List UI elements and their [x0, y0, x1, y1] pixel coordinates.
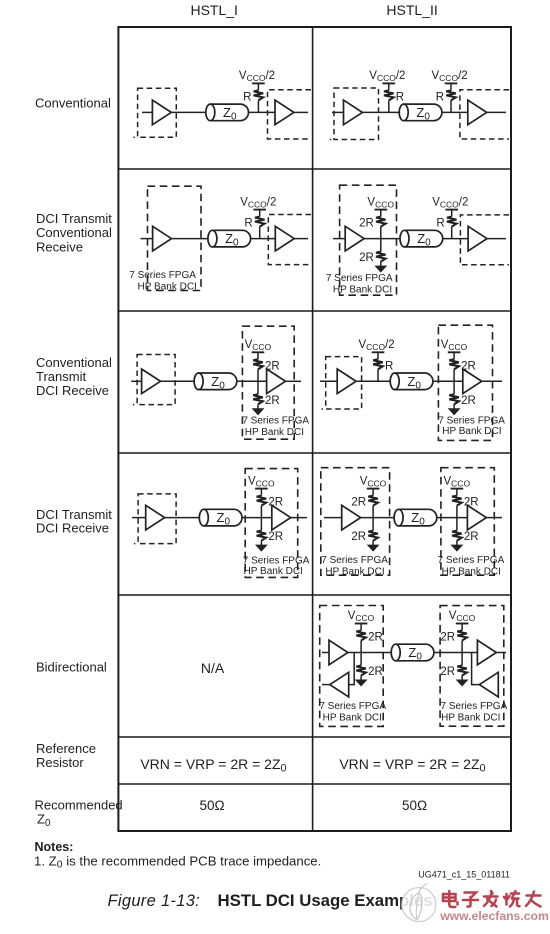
- svg-text:HSTL DCI Usage Examples: HSTL DCI Usage Examples: [218, 891, 433, 910]
- svg-text:7 Series FPGA: 7 Series FPGA: [438, 555, 505, 566]
- power rail VCCO bar: [445, 209, 458, 211]
- svg-text:VCCO/2: VCCO/2: [432, 196, 468, 209]
- DCI driver dashed box 7 Series FPGA HP Bank DCI (HSTL_I row2): [148, 186, 202, 290]
- resistor 2R pull-up to VCCO: [351, 489, 378, 518]
- row label Reference Resistor: [36, 741, 96, 770]
- receiver dashed box (conventional RX, HSTL_II row1): [460, 90, 509, 139]
- wire TX input stub: [322, 652, 329, 654]
- wire RX output stub: [486, 517, 502, 519]
- wire receiver branch (left transceiver): [349, 653, 355, 685]
- svg-text:HP Bank DCI: HP Bank DCI: [138, 282, 197, 293]
- svg-text:Z0: Z0: [37, 812, 51, 830]
- buffer U4 receiver: [468, 100, 487, 125]
- wire TX input stub: [332, 111, 344, 113]
- svg-text:VCCO: VCCO: [449, 610, 476, 623]
- svg-text:HP Bank DCI: HP Bank DCI: [245, 427, 304, 438]
- buffer U14 DCI receiver: [272, 505, 291, 530]
- svg-text:7 Series FPGA: 7 Series FPGA: [441, 701, 508, 712]
- svg-text:VCCO: VCCO: [348, 610, 375, 623]
- receiver dashed box (conventional RX, HSTL_I row2): [268, 215, 311, 265]
- svg-text:VRN = VRP = 2R = 2Z0: VRN = VRP = 2R = 2Z0: [140, 756, 286, 775]
- receiver dashed box (conventional RX, HSTL_II row2): [460, 215, 509, 265]
- wire line to receiver, node at R termination: [249, 111, 276, 113]
- svg-text:VCCO: VCCO: [441, 339, 468, 352]
- power rail VCCO bar: [255, 488, 268, 490]
- buffer U17 bidirectional driver (left): [329, 640, 348, 665]
- power rail VCCO bar: [252, 351, 265, 353]
- table row line y=737: [118, 736, 511, 738]
- ground: [356, 680, 367, 686]
- svg-text:R: R: [385, 360, 393, 372]
- wire driver branch (right transceiver): [472, 653, 480, 685]
- buffer U15 DCI transmit driver: [342, 505, 361, 530]
- svg-text:VCCO: VCCO: [360, 475, 387, 488]
- svg-text:2R: 2R: [359, 218, 374, 230]
- svg-text:7 Series FPGA: 7 Series FPGA: [242, 416, 309, 427]
- transmission line Z0: [206, 104, 249, 122]
- resistor 2R pull-up to VCCO: [449, 352, 476, 381]
- transmission line Z0: [394, 509, 437, 527]
- svg-text:Resistor: Resistor: [36, 755, 84, 770]
- label 7 Series FPGA HP Bank DCI: [441, 701, 508, 723]
- label 7 Series FPGA HP Bank DCI: [129, 270, 197, 293]
- label 7 Series FPGA HP Bank DCI: [438, 555, 505, 577]
- power rail VCCO bar: [367, 488, 380, 490]
- wire line to receiver, node at DCI split termination: [237, 380, 267, 382]
- driver dashed box (conventional TX, HSTL_II row1): [330, 88, 379, 140]
- watermark logo circle: [402, 884, 436, 922]
- wire TX to transmission line: [171, 111, 206, 113]
- svg-text:Conventional: Conventional: [36, 355, 112, 370]
- ground: [376, 266, 387, 272]
- DCI driver dashed box 7 Series FPGA HP Bank DCI (HSTL_II row2): [340, 185, 397, 295]
- svg-text:VCCO: VCCO: [367, 196, 394, 209]
- row label DCI Transmit DCI Receive: [36, 507, 112, 536]
- svg-text:DCI Receive: DCI Receive: [36, 383, 109, 398]
- wire line to receiver, node at far-end R: [442, 111, 468, 113]
- driver dashed box (conventional TX, HSTL_I row3): [133, 355, 175, 405]
- svg-text:7 Series FPGA: 7 Series FPGA: [243, 556, 310, 567]
- svg-text:HP Bank DCI: HP Bank DCI: [333, 284, 392, 295]
- table column divider: [312, 27, 314, 831]
- driver dashed box (conventional TX, HSTL_II row3): [322, 357, 362, 409]
- label 7 Series FPGA HP Bank DCI: [326, 273, 393, 295]
- transmission line Z0: [194, 373, 237, 391]
- buffer U13 transmit driver: [146, 505, 165, 530]
- wire RX output stub: [487, 111, 506, 113]
- svg-text:VCCO: VCCO: [444, 475, 471, 488]
- svg-text:VRN = VRP = 2R = 2Z0: VRN = VRP = 2R = 2Z0: [339, 756, 485, 775]
- resistor 2R pull-up to VCCO: [257, 489, 284, 518]
- power rail VCCO bar: [372, 351, 385, 353]
- wire TX input stub: [333, 238, 345, 240]
- table row line y=453: [118, 452, 511, 454]
- resistor 2R pull-up to VCCO: [440, 624, 467, 653]
- wire RX output stub (left): [322, 684, 330, 686]
- resistor 2R pull-up to VCCO: [359, 210, 386, 239]
- buffer U9 transmit driver: [142, 369, 161, 394]
- svg-text:DCI Receive: DCI Receive: [36, 521, 109, 536]
- buffer U16 DCI receiver: [467, 505, 486, 530]
- svg-text:50Ω: 50Ω: [199, 798, 224, 813]
- resistor 2R to ground: [356, 653, 383, 681]
- svg-text:50Ω: 50Ω: [402, 798, 427, 813]
- svg-text:2R: 2R: [440, 632, 455, 644]
- buffer U6 receiver: [275, 226, 294, 251]
- svg-text:Conventional: Conventional: [36, 225, 112, 240]
- ground: [368, 545, 379, 551]
- transmission line Z0: [390, 373, 433, 391]
- row label Recommended Z0: [35, 797, 123, 829]
- svg-text:HP Bank DCI: HP Bank DCI: [323, 713, 382, 724]
- table outer border: [118, 27, 511, 831]
- wire TX to transmission line, node at split termination: [364, 238, 400, 240]
- wire RX output stub (right): [496, 652, 506, 654]
- row label Conventional Transmit DCI Receive: [36, 355, 112, 398]
- ground: [452, 545, 463, 551]
- wire TX to transmission line, node at source R: [356, 380, 390, 382]
- resistor 2R to ground: [253, 381, 280, 409]
- DCI receiver dashed box 7 Series FPGA HP Bank DCI (HSTL_II row3): [438, 325, 492, 440]
- DCI driver dashed box 7 Series FPGA HP Bank DCI (HSTL_II row4 left): [321, 468, 390, 576]
- ground: [449, 409, 460, 415]
- DCI receiver dashed box 7 Series FPGA HP Bank DCI (HSTL_II row4 right): [441, 468, 494, 576]
- buffer U2 receiver: [275, 100, 294, 125]
- label 7 Series FPGA HP Bank DCI: [242, 416, 309, 438]
- svg-text:VCCO/2: VCCO/2: [359, 339, 395, 352]
- wire driver to transmission line, node at split termination: [348, 652, 391, 654]
- label 7 Series FPGA HP Bank DCI: [243, 556, 310, 577]
- resistor R far-end pull-up to VCCO/2: [436, 83, 456, 112]
- label 7 Series FPGA HP Bank DCI: [319, 701, 386, 723]
- svg-text:Figure 1-13:: Figure 1-13:: [108, 892, 201, 910]
- ground: [253, 409, 264, 415]
- power rail VCCO bar: [253, 209, 266, 211]
- buffer U7 DCI transmit driver: [345, 226, 364, 251]
- wire line to right transceiver, node at split termination: [434, 652, 478, 654]
- buffer U10 DCI receiver: [267, 369, 286, 394]
- resistor 2R pull-up to VCCO: [356, 624, 383, 653]
- svg-text:Conventional: Conventional: [35, 96, 111, 111]
- wire line to receiver, node at DCI split termination: [242, 517, 272, 519]
- resistor 2R to ground: [440, 653, 467, 681]
- svg-text:R: R: [396, 91, 404, 103]
- buffer U11 transmit driver: [337, 369, 356, 394]
- wire TX input stub: [132, 517, 146, 519]
- svg-text:DCI Transmit: DCI Transmit: [36, 507, 112, 522]
- svg-text:DCI Transmit: DCI Transmit: [36, 211, 112, 226]
- svg-text:7 Series FPGA: 7 Series FPGA: [326, 273, 393, 284]
- svg-text:2R: 2R: [268, 531, 283, 543]
- wire TX input stub: [141, 238, 153, 240]
- wire TX to transmission line, node at split termination: [361, 517, 395, 519]
- svg-text:2R: 2R: [461, 395, 476, 407]
- svg-text:2R: 2R: [440, 666, 455, 678]
- resistor R pull-up to VCCO/2: [243, 83, 263, 112]
- wire line to receiver, node at DCI split termination: [437, 517, 468, 519]
- buffer U19 bidirectional receiver (right): [477, 640, 496, 665]
- resistor 2R to ground: [257, 518, 284, 546]
- label 7 Series FPGA HP Bank DCI: [321, 555, 388, 577]
- svg-text:2R: 2R: [368, 632, 383, 644]
- transmission line Z0: [391, 644, 434, 662]
- power rail VCCO bar: [445, 82, 458, 84]
- svg-text:7 Series FPGA: 7 Series FPGA: [321, 555, 388, 566]
- svg-text:2R: 2R: [368, 666, 383, 678]
- wire RX output stub: [294, 111, 308, 113]
- DCI receiver dashed box 7 Series FPGA HP Bank DCI (HSTL_I row3): [242, 326, 294, 439]
- svg-text:N/A: N/A: [201, 660, 225, 676]
- buffer U1 transmit driver: [152, 100, 171, 125]
- buffer U20 bidirectional driver (right): [479, 672, 498, 697]
- power rail VCCO bar: [448, 351, 461, 353]
- table row line y=169: [118, 168, 511, 170]
- resistor R pull-up to VCCO/2: [244, 210, 264, 239]
- resistor 2R pull-up to VCCO: [452, 489, 479, 518]
- DCI receiver dashed box 7 Series FPGA HP Bank DCI (HSTL_I row4): [245, 469, 298, 578]
- resistor 2R to ground: [351, 518, 378, 546]
- wire RX output stub: [291, 517, 307, 519]
- svg-text:HP Bank DCI: HP Bank DCI: [442, 566, 501, 577]
- wire RX output stub: [286, 380, 302, 382]
- buffer U12 DCI receiver: [463, 369, 482, 394]
- svg-text:HSTL_I: HSTL_I: [190, 2, 237, 18]
- wire line to receiver, node at R termination: [443, 238, 468, 240]
- svg-text:R: R: [436, 91, 444, 103]
- svg-text:2R: 2R: [351, 497, 366, 509]
- wire line to receiver, node at R termination: [251, 238, 276, 240]
- svg-text:7 Series FPGA: 7 Series FPGA: [438, 416, 505, 427]
- buffer U8 receiver: [468, 226, 487, 251]
- svg-text:Receive: Receive: [36, 239, 83, 254]
- resistor 2R to ground: [452, 518, 479, 546]
- resistor R pull-up to VCCO/2: [436, 210, 456, 239]
- svg-text:R: R: [436, 218, 444, 230]
- table row line y=595: [118, 594, 511, 596]
- svg-text:HP Bank DCI: HP Bank DCI: [441, 713, 500, 724]
- wire TX to transmission line, node at source R: [362, 111, 399, 113]
- resistor 2R to ground: [359, 239, 386, 267]
- table row line y=311: [118, 310, 511, 312]
- svg-text:HSTL_II: HSTL_II: [386, 2, 437, 18]
- transmission line Z0: [208, 230, 251, 248]
- svg-text:7 Series FPGA: 7 Series FPGA: [129, 270, 196, 281]
- svg-text:VCCO/2: VCCO/2: [432, 70, 468, 83]
- figure caption: [108, 891, 433, 910]
- svg-text:2R: 2R: [464, 531, 479, 543]
- wire TX to transmission line: [172, 238, 208, 240]
- svg-text:VCCO: VCCO: [248, 475, 275, 488]
- watermark text dianzi fashaoyou: [443, 891, 541, 907]
- svg-text:UG471_c1_15_011811: UG471_c1_15_011811: [418, 870, 510, 880]
- receiver dashed box (conventional RX, HSTL_I row1): [268, 90, 312, 139]
- resistor R source pull-up to VCCO/2: [373, 352, 393, 381]
- wire RX output stub: [487, 238, 506, 240]
- DCI transceiver dashed box 7 Series FPGA HP Bank DCI (bidirectional left): [320, 606, 384, 727]
- wire RX output stub: [294, 238, 308, 240]
- buffer U18 bidirectional receiver (left): [330, 672, 349, 697]
- svg-text:VCCO: VCCO: [245, 339, 272, 352]
- svg-text:Reference: Reference: [36, 741, 96, 756]
- wire RX output stub: [482, 380, 502, 382]
- power rail VCCO bar: [375, 209, 388, 211]
- svg-text:2R: 2R: [268, 497, 283, 509]
- transmission line Z0: [399, 104, 442, 122]
- wire line to receiver, node at DCI split termination: [433, 380, 463, 382]
- resistor R source pull-up to VCCO/2: [384, 83, 404, 112]
- svg-text:HP Bank DCI: HP Bank DCI: [442, 426, 501, 437]
- svg-text:Transmit: Transmit: [36, 369, 86, 384]
- wire TX input stub: [320, 380, 337, 382]
- svg-text:VCCO/2: VCCO/2: [239, 70, 275, 83]
- svg-text:Recommended: Recommended: [35, 797, 123, 812]
- power rail VCCO bar: [355, 623, 368, 625]
- svg-text:R: R: [243, 91, 251, 103]
- driver dashed box (conventional TX, HSTL_I row1): [133, 88, 176, 137]
- power rail VCCO bar: [456, 623, 469, 625]
- wire TX input stub: [324, 517, 342, 519]
- table row line y=784: [118, 783, 511, 785]
- svg-text:HP Bank DCI: HP Bank DCI: [244, 566, 303, 577]
- power rail VCCO bar: [383, 82, 396, 84]
- svg-text:www.elecfans.com: www.elecfans.com: [439, 909, 549, 923]
- svg-text:2R: 2R: [351, 531, 366, 543]
- wire TX to transmission line: [161, 380, 195, 382]
- ground: [256, 545, 267, 551]
- label 7 Series FPGA HP Bank DCI: [438, 416, 505, 437]
- svg-text:VCCO/2: VCCO/2: [369, 70, 405, 83]
- wire TX input stub: [131, 380, 141, 382]
- svg-text:2R: 2R: [359, 252, 374, 264]
- svg-text:VCCO/2: VCCO/2: [240, 196, 276, 209]
- resistor 2R pull-up to VCCO: [253, 352, 280, 381]
- svg-text:2R: 2R: [265, 395, 280, 407]
- svg-text:Bidirectional: Bidirectional: [36, 660, 107, 675]
- svg-text:HP Bank DCI: HP Bank DCI: [325, 566, 384, 577]
- buffer U5 DCI transmit driver: [153, 226, 172, 251]
- svg-text:7 Series FPGA: 7 Series FPGA: [319, 701, 386, 712]
- power rail VCCO bar: [252, 82, 265, 84]
- transmission line Z0: [199, 509, 242, 527]
- svg-text:R: R: [244, 218, 252, 230]
- ground: [457, 680, 468, 686]
- resistor 2R to ground: [449, 381, 476, 409]
- power rail VCCO bar: [451, 488, 464, 490]
- row label DCI Transmit Conventional Receive: [36, 211, 112, 254]
- svg-text:Notes:: Notes:: [35, 840, 74, 854]
- driver dashed box (TX, HSTL_I row4): [134, 494, 176, 544]
- wire TX input stub: [142, 111, 152, 113]
- DCI transceiver dashed box 7 Series FPGA HP Bank DCI (bidirectional right): [440, 606, 504, 727]
- wire TX to transmission line: [165, 517, 200, 519]
- transmission line Z0: [400, 230, 443, 248]
- svg-text:1. Z0 is the recommended PCB: 1. Z0 is the recommended PCB trace imped…: [34, 853, 321, 870]
- buffer U3 transmit driver: [344, 100, 363, 125]
